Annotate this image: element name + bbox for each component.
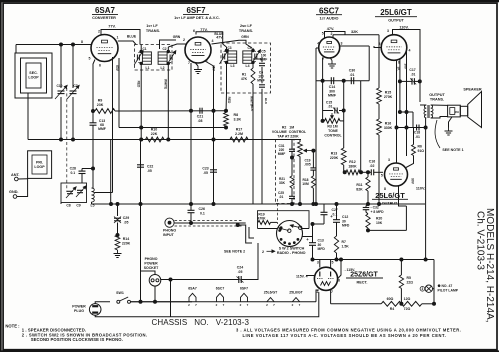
wire socket drop — [154, 286, 156, 302]
svg-text:2: 2 — [216, 303, 218, 307]
wire c25 bot — [291, 199, 293, 205]
node x434 r4 — [433, 302, 436, 305]
vol dashed box — [276, 140, 294, 204]
svg-text:60Ω: 60Ω — [387, 297, 394, 301]
svg-text:PILOT LAMP: PILOT LAMP — [438, 289, 459, 293]
svg-text:6: 6 — [193, 29, 195, 33]
node y80 a — [321, 79, 324, 82]
svg-text:3.3K: 3.3K — [234, 117, 242, 121]
svg-text:C4: C4 — [247, 46, 251, 50]
svg-text:82K: 82K — [356, 187, 363, 191]
wire c19 top — [312, 151, 314, 168]
wire c16 right — [374, 171, 383, 173]
svg-text:RECT.: RECT. — [357, 281, 368, 285]
capacitor C29 .05 — [114, 216, 129, 224]
wire L1 top stub — [140, 45, 142, 52]
wire heater to 25z6 — [316, 290, 319, 302]
label 25L6 2 — [372, 191, 408, 206]
wire 25z6 pin4 — [306, 275, 314, 277]
models side text — [484, 208, 495, 323]
wire x140 down — [140, 140, 142, 205]
tube 25L6 2 — [385, 163, 408, 186]
svg-text:CHASSIS NO. V-2103-3: CHASSIS NO. V-2103-3 — [152, 318, 250, 327]
svg-text:OUTPUT: OUTPUT — [388, 19, 404, 23]
1st IF trans box — [135, 45, 173, 71]
wire c32 top — [366, 204, 368, 208]
wire 6SA7 plate — [101, 30, 140, 45]
svg-text:25Z6/GT: 25Z6/GT — [350, 272, 378, 279]
node r14 top — [116, 234, 119, 237]
node 258 b — [311, 258, 314, 261]
wire 25z6 pin8 — [338, 260, 341, 279]
wire 6SC7 p5 up — [325, 32, 346, 38]
svg-text:5: 5 — [89, 57, 91, 61]
wire r7 top — [336, 227, 338, 236]
chassis side text — [475, 211, 486, 270]
wire x361 up — [360, 81, 362, 173]
capacitor C26 0.1 — [188, 207, 205, 215]
resistor R17 2.2M — [230, 128, 248, 142]
svg-text:INPUT: INPUT — [163, 233, 175, 237]
heater 6SF7 at x244 — [240, 286, 249, 307]
label red 2ndIF — [227, 97, 231, 104]
ground R14 — [114, 250, 122, 258]
node det bus — [212, 109, 215, 112]
node c28 — [92, 167, 95, 170]
wire c29 r14 — [117, 223, 119, 236]
node c17 a — [398, 80, 401, 83]
capacitor C5 100MMF — [259, 50, 267, 66]
sw2 contacts — [279, 227, 299, 245]
svg-text:300: 300 — [404, 63, 408, 69]
svg-text:23K: 23K — [97, 103, 104, 107]
capacitor C13f 30MFD — [306, 237, 325, 251]
pins 25Z6 — [296, 261, 340, 294]
wire r16 down — [378, 135, 380, 204]
wire c31 bot — [291, 151, 293, 176]
label 77V 6SF7 — [200, 28, 207, 32]
svg-text:PLUG: PLUG — [74, 309, 84, 313]
svg-text:270K: 270K — [384, 95, 393, 99]
node grid C10 — [60, 43, 63, 46]
wire plug bot — [95, 292, 319, 317]
wire pin6 tap — [95, 192, 113, 194]
svg-text:2: 2 — [240, 303, 242, 307]
svg-text:2: 2 — [98, 30, 100, 34]
phono power socket — [144, 257, 161, 286]
svg-text:10M: 10M — [302, 182, 309, 186]
pins 6SC7 — [317, 32, 342, 61]
capacitor C25 .01 — [278, 191, 295, 199]
label R2 — [272, 126, 307, 139]
label sw2 — [277, 246, 306, 255]
capacitor C27 0.1 — [321, 208, 338, 216]
svg-text:6: 6 — [322, 57, 324, 61]
svg-text:POWER: POWER — [72, 305, 86, 309]
wire r5 top — [400, 260, 402, 276]
node c26 bot — [190, 222, 193, 225]
node r2 wiper — [312, 149, 315, 152]
svg-text:110V.: 110V. — [399, 26, 408, 30]
wire 6SA7 pin1 blue — [118, 41, 136, 45]
wire r5 bot — [400, 288, 402, 303]
resistor R19 470K — [257, 212, 270, 224]
svg-text:72Ω: 72Ω — [404, 307, 411, 311]
label 32K — [351, 30, 358, 34]
svg-text:7: 7 — [195, 303, 197, 307]
svg-text:1ST I-F: 1ST I-F — [146, 24, 158, 28]
wire ot top in — [420, 104, 426, 106]
wire 6SC7 grid arm — [316, 47, 320, 49]
wire ant to pri loop — [18, 178, 28, 180]
label output trans — [429, 93, 445, 102]
node 258 d — [424, 258, 427, 261]
svg-text:MMF: MMF — [278, 152, 286, 156]
wire c5 c6 link — [261, 67, 263, 83]
tube 6SA7 — [91, 35, 118, 62]
svg-text:CONTROL: CONTROL — [324, 133, 342, 137]
wire c15 left — [323, 110, 333, 112]
node 191 bus — [190, 203, 193, 206]
svg-text:C10: C10 — [56, 84, 62, 88]
node r5 top — [400, 258, 403, 261]
svg-text:2: 2 — [331, 32, 333, 36]
svg-text:90V: 90V — [411, 178, 415, 185]
wire red drop 2 — [226, 62, 228, 93]
capacitor C9 osc — [76, 186, 86, 197]
svg-text:.01: .01 — [279, 195, 284, 199]
node r11 bus — [367, 203, 370, 206]
gnd terminal — [9, 190, 19, 198]
wire L4 to c5 — [252, 62, 254, 68]
wire bus y127 — [119, 127, 226, 129]
resistor R10 22K — [146, 128, 165, 142]
node y112 a — [398, 111, 401, 114]
svg-text:2ND I-F: 2ND I-F — [240, 24, 253, 28]
wire r7 bot — [336, 253, 338, 260]
see note 1 — [442, 148, 463, 152]
node r8 bottom — [225, 126, 228, 129]
svg-text:2: 2 — [188, 303, 190, 307]
svg-text:8: 8 — [338, 279, 340, 283]
svg-text:7: 7 — [188, 61, 190, 65]
wire B- bus — [92, 203, 426, 205]
node 258 c — [340, 258, 343, 261]
wire sw1 out — [131, 301, 193, 303]
node c15 r — [342, 109, 345, 112]
wire ot sec top — [431, 104, 448, 106]
label grn 1stIF — [173, 35, 181, 39]
svg-text:7: 7 — [223, 303, 225, 307]
label pilot lamp — [438, 284, 459, 293]
svg-text:TRANS.: TRANS. — [430, 97, 444, 101]
2nd IF primary L3 — [220, 46, 237, 68]
wire r13 bot — [343, 165, 345, 172]
resistor R11 82K — [356, 177, 370, 191]
wire L2 grn top — [160, 40, 177, 49]
wire c19 r18 — [312, 170, 314, 176]
pri loop label — [34, 161, 45, 170]
label 6SF7 — [174, 6, 220, 20]
note 3b — [243, 333, 447, 338]
svg-text:25L6/GT: 25L6/GT — [375, 191, 405, 200]
wire c13f bot — [312, 246, 314, 260]
svg-text:22Ω: 22Ω — [407, 280, 414, 284]
pilot lamp — [420, 285, 432, 292]
svg-text:7: 7 — [331, 290, 333, 294]
resistor R21 33K — [279, 176, 294, 188]
svg-text:3: 3 — [388, 158, 390, 162]
svg-text:220K: 220K — [122, 241, 131, 245]
svg-text:POWER: POWER — [144, 262, 158, 266]
2nd IF secondary L4 — [243, 46, 261, 68]
wire 6SC7 plate — [340, 45, 370, 47]
label 300 ohm — [404, 63, 408, 69]
capacitor C7 tuning — [67, 84, 79, 99]
wire c12 bot — [336, 223, 338, 228]
svg-text:- C32: - C32 — [371, 205, 379, 209]
svg-text:12Ω: 12Ω — [404, 297, 411, 301]
capacitor C12 30MFD — [330, 214, 350, 228]
wire c12 top — [336, 204, 338, 220]
wire bus y140 — [28, 139, 301, 141]
label grn 2ndIF — [241, 35, 249, 39]
wire bus y112 — [400, 111, 413, 113]
node R9 left — [92, 110, 95, 113]
wire x140 down2 — [140, 204, 142, 302]
resistor R7 15K — [334, 236, 349, 253]
node bus204 c — [315, 203, 318, 206]
wire c24 line left — [161, 279, 239, 281]
wire r18 bot — [312, 188, 314, 204]
wire C10 bottom — [60, 97, 62, 140]
capacitor C14 300MMF — [328, 77, 337, 97]
svg-text:ANT.: ANT. — [11, 173, 19, 177]
wire blk down2 — [261, 112, 263, 204]
R2 wiper — [304, 149, 313, 151]
svg-text:SECOND POSITION CLOCKWISE I: SECOND POSITION CLOCKWISE IS PHONO. — [31, 337, 123, 342]
label 110V top — [399, 26, 408, 30]
tube 25Z6 — [314, 267, 337, 290]
svg-text:TRANS.: TRANS. — [146, 29, 160, 33]
svg-text:220K: 220K — [330, 156, 339, 160]
svg-text:PHONO: PHONO — [163, 229, 176, 233]
node bus204 d — [110, 203, 113, 206]
scan edge bottom — [0, 351, 499, 352]
note 1 — [22, 327, 86, 332]
node r20 bot — [367, 229, 370, 232]
capacitor C21 — [197, 108, 203, 123]
capacitor C16 .02 — [369, 160, 375, 176]
svg-text:6SC7: 6SC7 — [319, 6, 340, 15]
wire L3 top stub — [226, 47, 228, 51]
svg-text:LOOP: LOOP — [28, 76, 39, 80]
svg-text:C2: C2 — [162, 47, 166, 51]
wire 6SF7 grid — [168, 44, 186, 47]
wire tone right — [340, 120, 344, 122]
label R3 tone — [324, 125, 342, 138]
svg-text:OUTPUT: OUTPUT — [429, 93, 445, 97]
svg-text:BLUE: BLUE — [127, 34, 137, 38]
wire C10 drop — [60, 45, 62, 89]
heater 25L6/GT at x296 — [289, 291, 303, 307]
wire bus 258 — [313, 259, 435, 261]
wire 6SC7 p2 bus — [333, 34, 379, 36]
sw2 rotor arm 2 — [291, 225, 302, 230]
note curve — [435, 120, 440, 148]
wire c26 bottom — [190, 213, 192, 223]
svg-text:S W 2 SWITCH: S W 2 SWITCH — [279, 246, 305, 250]
svg-text:330K: 330K — [384, 126, 393, 130]
pins 25L6 1 — [379, 29, 411, 65]
node c12 top — [335, 203, 338, 206]
node phono end — [236, 224, 239, 227]
svg-text:SEE NOTE 2: SEE NOTE 2 — [224, 250, 245, 254]
node y127 b — [424, 126, 427, 129]
svg-text:C1: C1 — [142, 47, 146, 51]
speaker can — [448, 105, 461, 117]
svg-text:4: 4 — [409, 49, 411, 53]
svg-text:2: 2 — [292, 303, 294, 307]
wire 6SA7 cath drop — [93, 60, 95, 112]
svg-text:.01: .01 — [328, 104, 333, 108]
svg-text:1ST AUDIO: 1ST AUDIO — [320, 17, 339, 21]
label phono input — [163, 229, 176, 238]
svg-text:.01: .01 — [411, 72, 416, 76]
capacitor C17 .01 — [409, 68, 416, 85]
2nd IF trans box — [221, 43, 271, 93]
wire phono drop — [238, 225, 252, 243]
shield dashed top — [175, 220, 244, 222]
capacitor C6 100MMF — [257, 71, 265, 88]
wire grid bus — [16, 44, 91, 46]
wire c28 arm — [82, 168, 93, 170]
wire 6SF7 pin7 drop — [190, 63, 192, 204]
1st IF primary L1 — [134, 47, 151, 70]
label 110V 2 — [416, 187, 425, 191]
svg-text:TAP AT 220K: TAP AT 220K — [277, 134, 299, 138]
svg-text:10K: 10K — [376, 221, 383, 225]
svg-text:BLK: BLK — [250, 105, 254, 112]
svg-text:PHONO: PHONO — [145, 257, 158, 261]
svg-text:6SA7: 6SA7 — [188, 286, 197, 290]
svg-text:115V. 4: 115V. 4 — [296, 274, 308, 278]
node x140 heater bus — [139, 300, 142, 303]
svg-text:2: 2 — [183, 38, 185, 42]
wire white 2ndIF — [252, 84, 254, 112]
svg-text:GRN: GRN — [173, 35, 181, 39]
wire 25L6 cath drop — [396, 60, 398, 163]
wire C13 top — [92, 111, 94, 123]
capacitor C32 8MFD — [363, 205, 384, 214]
node c17 b — [418, 80, 421, 83]
svg-text:5: 5 — [332, 261, 334, 265]
node bus140 e — [212, 138, 215, 141]
wire r2 bot — [299, 156, 301, 204]
svg-text:180K: 180K — [348, 164, 357, 168]
wire 25L6 g — [374, 46, 381, 48]
svg-text:Ch. V-2103-3: Ch. V-2103-3 — [475, 211, 486, 270]
svg-text:R4: R4 — [390, 307, 395, 311]
svg-text:4: 4 — [212, 39, 214, 43]
gang dashed link — [66, 88, 68, 192]
svg-text:6: 6 — [99, 64, 101, 68]
wire socket top — [141, 271, 156, 275]
wire c32 r20 — [366, 210, 368, 214]
capacitor C8 osc — [66, 187, 76, 198]
svg-text:3: 3 — [387, 29, 389, 33]
wire bus140 ext — [248, 139, 301, 141]
node 258 a — [335, 258, 338, 261]
wire 25L6b cath — [399, 185, 407, 206]
svg-text:.05: .05 — [147, 169, 152, 173]
wire r20 bus — [368, 229, 406, 231]
sec loop label — [28, 71, 39, 80]
svg-text:RED: RED — [227, 97, 231, 104]
capacitor C10 tuning — [55, 84, 67, 99]
svg-text:25L6/GT: 25L6/GT — [380, 8, 412, 17]
resistor R2 1M — [298, 142, 303, 156]
node grid C7 — [72, 43, 75, 46]
svg-text:BLK: BLK — [264, 98, 268, 105]
label blk left — [250, 105, 254, 112]
svg-text:6SA7: 6SA7 — [95, 6, 116, 15]
wire x406 down — [405, 206, 407, 230]
svg-text:6SF7: 6SF7 — [186, 6, 206, 15]
svg-text:7: 7 — [273, 303, 275, 307]
node y127 c — [395, 126, 398, 129]
wire c28 down — [81, 169, 83, 171]
speaker driver — [460, 106, 467, 116]
wire 25z6 pin5 up — [330, 260, 332, 268]
ground 6SC7 — [328, 61, 336, 69]
wire x413 drop — [412, 112, 414, 128]
wire r11 bot — [367, 191, 369, 204]
svg-text:77V.: 77V. — [108, 25, 115, 29]
svg-text:MMF: MMF — [257, 79, 265, 83]
wire r4 to x434 — [422, 303, 434, 305]
node bus140 c — [140, 138, 143, 141]
pins 6SA7 — [81, 30, 119, 68]
svg-text:.08: .08 — [198, 119, 203, 123]
node bus204 g — [312, 203, 315, 206]
node det bus2 — [212, 203, 215, 206]
svg-text:3: 3 — [317, 261, 319, 265]
capacitor C19 .005 — [304, 158, 316, 170]
svg-text:MFD: MFD — [318, 247, 326, 251]
wire 6SA7 pin1 drop — [118, 58, 120, 128]
output trans core — [428, 105, 429, 118]
svg-text:1ST I-F AMP DET. & A.V.C.: 1ST I-F AMP DET. & A.V.C. — [174, 16, 220, 20]
sec loop inner — [26, 63, 41, 88]
wire c29 drop — [117, 204, 119, 216]
wire x379 — [378, 35, 380, 88]
power plug — [72, 304, 101, 316]
osc box — [61, 183, 87, 203]
node bus204 e — [291, 203, 294, 206]
wire L1 bottom red — [140, 63, 142, 127]
tube 6SF7 — [185, 37, 211, 63]
capacitor C22 .05 — [137, 165, 153, 173]
svg-text:C7: C7 — [73, 84, 77, 88]
label 35V — [212, 65, 216, 72]
svg-text:L3: L3 — [231, 64, 235, 68]
tube 25L6 1 — [381, 35, 407, 61]
wire red down2 — [140, 128, 142, 140]
svg-text:47V.: 47V. — [216, 35, 223, 39]
shield dashed bottom — [175, 225, 244, 227]
wire c27c13 link — [313, 223, 325, 225]
